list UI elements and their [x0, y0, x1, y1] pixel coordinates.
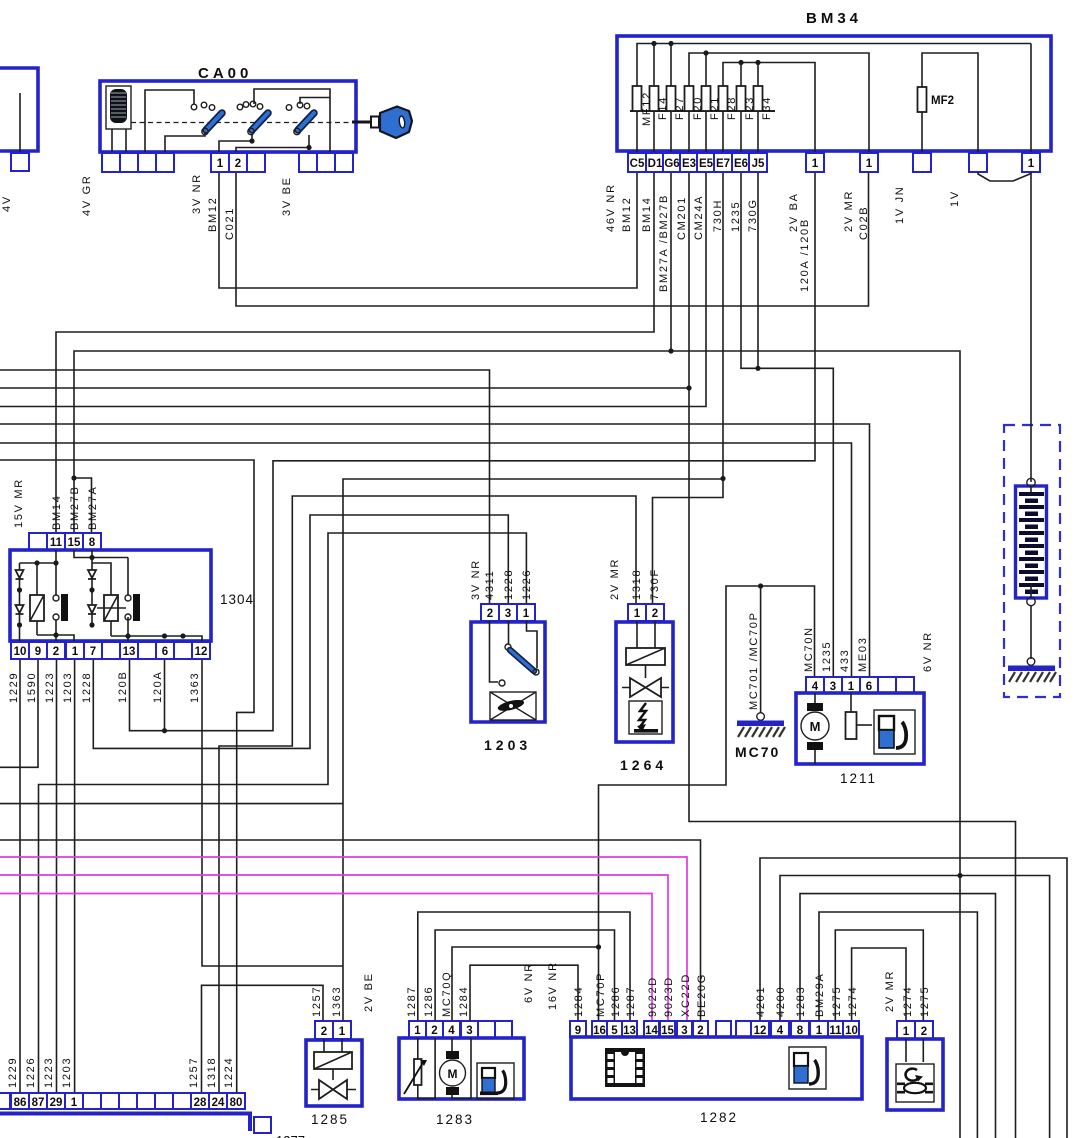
pin cells 1 2 4 3 + blanks: [409, 1021, 426, 1038]
component box: [887, 1039, 943, 1110]
svg-text:E7: E7: [716, 158, 730, 170]
svg-text:1283: 1283: [795, 986, 807, 1017]
wire MC70 ground drop: [760, 586, 762, 713]
svg-text:730G: 730G: [747, 198, 759, 232]
fuel pump icon: [789, 1047, 826, 1089]
pin cells 1 2: [897, 1021, 915, 1039]
partial component box: [0, 68, 38, 151]
switch contact wiring 3: [236, 135, 309, 153]
svg-text:G6: G6: [664, 158, 679, 170]
svg-text:16: 16: [593, 1025, 606, 1037]
svg-text:M: M: [810, 719, 821, 734]
svg-text:BM14: BM14: [641, 196, 653, 232]
wire XC22D magenta: [0, 857, 687, 1021]
wire 1286 1283 pin2 to 1282 pin5: [435, 930, 614, 1021]
svg-text:BM27B: BM27B: [69, 485, 81, 530]
component box 1211: [796, 693, 924, 764]
svg-text:9022D: 9022D: [647, 976, 659, 1017]
svg-text:11: 11: [50, 537, 63, 549]
svg-text:1363: 1363: [189, 672, 201, 703]
svg-text:1: 1: [816, 1025, 823, 1037]
svg-text:3V NR: 3V NR: [470, 559, 482, 600]
svg-text:3: 3: [681, 1025, 687, 1037]
coil: [314, 1052, 352, 1069]
svg-text:MC70Q: MC70Q: [441, 971, 453, 1017]
component box CA00: [100, 81, 356, 152]
relay2 contact: [127, 558, 129, 660]
svg-text:2: 2: [53, 646, 59, 658]
svg-text:1: 1: [903, 1026, 910, 1038]
relay2 diode chain: [91, 550, 93, 625]
svg-text:4V: 4V: [1, 195, 13, 212]
svg-text:1264: 1264: [620, 757, 667, 773]
svg-text:1203: 1203: [484, 737, 531, 753]
wire 1274 1282 pin10 to regulator pin1: [852, 948, 906, 1021]
switch lever 2: [237, 101, 268, 135]
wire 1228 1203 pin3 to 1304 pin7: [93, 515, 508, 748]
svg-text:4: 4: [777, 1025, 784, 1037]
svg-text:XC22D: XC22D: [680, 973, 692, 1017]
cylinder wires: [112, 129, 126, 153]
wire 4311 left edge to 1203 pin2: [0, 370, 490, 604]
wire 1235/730G BM34 E6,J5 to 1211 pin3: [741, 172, 833, 677]
svg-text:F14: F14: [657, 96, 669, 120]
svg-text:BM12: BM12: [207, 196, 219, 232]
wire 1284 1283 pin3 to 1282 pin9: [470, 965, 578, 1021]
pin cells 1 2: [628, 604, 646, 621]
wire ME03 left edge to 1211 pin6: [0, 424, 870, 677]
component box 1304: [10, 550, 211, 641]
svg-text:2V MR: 2V MR: [884, 970, 896, 1012]
junction dots CA00: [249, 138, 254, 143]
svg-text:4200: 4200: [775, 986, 787, 1017]
wire 433 left edge to 1211 pin1: [0, 443, 852, 677]
relay1 top rail: [20, 562, 57, 564]
fuse F28: [719, 86, 728, 111]
key symbol: [352, 107, 412, 139]
svg-text:MF2: MF2: [931, 95, 954, 107]
right pin cells: [751, 1021, 769, 1037]
svg-text:BM27A: BM27A: [87, 485, 99, 530]
svg-text:1257: 1257: [311, 986, 323, 1017]
svg-text:1275: 1275: [831, 986, 843, 1017]
relay2 bottom rail: [111, 636, 202, 659]
wire C02B CA00 pin2 to BM34 2V MR pin: [236, 172, 869, 306]
svg-text:D1: D1: [648, 158, 663, 170]
fan motor: [490, 692, 536, 720]
svg-text:1257: 1257: [188, 1057, 200, 1088]
wire MC70 ground net: [599, 586, 815, 1021]
switch inside: [508, 621, 510, 644]
svg-text:730H: 730H: [712, 199, 724, 232]
svg-text:433: 433: [839, 649, 851, 672]
svg-text:6: 6: [162, 646, 168, 658]
BM34 pin cell blank (1V JN): [913, 153, 931, 172]
svg-text:BE20G: BE20G: [696, 973, 708, 1017]
svg-text:1318: 1318: [206, 1057, 218, 1088]
svg-text:12: 12: [754, 1025, 767, 1037]
canister glyph: [629, 701, 662, 734]
svg-text:1363: 1363: [331, 986, 343, 1017]
wire 1224 left edge to strip pin80: [0, 460, 254, 1093]
svg-text:5: 5: [611, 1025, 618, 1037]
wire MC70Q branch 1283 pin4: [452, 947, 599, 1021]
switch lever 1: [191, 102, 222, 135]
wire 730G J5 drop: [757, 172, 759, 368]
battery body: [1016, 486, 1047, 598]
svg-text:1223: 1223: [43, 1057, 55, 1088]
svg-text:2: 2: [431, 1025, 437, 1037]
fuse F20: [685, 86, 694, 111]
svg-text:F23: F23: [744, 96, 756, 120]
top pin cells: [29, 533, 47, 550]
relay1 coil: [36, 563, 38, 635]
motor: [452, 1038, 471, 1099]
svg-text:1: 1: [217, 158, 224, 170]
BM34 pin cells C5 D1 G6 E3 E5 E7 E6 J5: [628, 153, 646, 172]
fuse wires to pins: [637, 111, 758, 154]
valve bowtie: [332, 1069, 334, 1080]
fuse carrier baseline: [630, 110, 775, 112]
component box 1282: [571, 1037, 862, 1099]
svg-text:16V NR: 16V NR: [547, 961, 559, 1010]
wire 730H branch staircase to left edge: [343, 479, 723, 1021]
svg-text:F21: F21: [709, 96, 721, 120]
wire CM201 BM34 E3 down to bottom connector: [689, 172, 1016, 1138]
strip cells: [0, 1093, 10, 1109]
svg-text:E3: E3: [682, 158, 696, 170]
svg-text:1590: 1590: [26, 672, 38, 703]
svg-text:E6: E6: [734, 158, 748, 170]
svg-text:F20: F20: [692, 96, 704, 120]
svg-text:13: 13: [623, 1025, 636, 1037]
svg-text:1285: 1285: [311, 1112, 349, 1127]
svg-text:3: 3: [466, 1025, 472, 1037]
battery feed through pin 1: [1030, 44, 1032, 173]
coil: [637, 621, 655, 648]
svg-text:1: 1: [1028, 158, 1035, 170]
switch contact wiring 2: [254, 89, 330, 153]
svg-text:1: 1: [523, 608, 530, 620]
switch contact wiring 1: [145, 90, 194, 153]
component box 1283: [399, 1038, 524, 1099]
fuse F34: [754, 86, 763, 111]
svg-text:3V NR: 3V NR: [191, 173, 203, 214]
svg-text:1: 1: [812, 158, 819, 170]
wire to ground: [1030, 605, 1032, 659]
svg-text:CM24A: CM24A: [693, 195, 705, 240]
svg-text:F28: F28: [726, 96, 738, 120]
relay2 feed rail: [74, 550, 128, 558]
pin cells 4 3 1 6 + blanks: [806, 677, 824, 693]
fuse MF12: [633, 86, 642, 111]
level sensor: [850, 693, 852, 712]
svg-text:2V MR: 2V MR: [609, 558, 621, 600]
wire 120A/120B BM34 2V BA to 1304 pins 13,6: [130, 172, 816, 731]
svg-text:1235: 1235: [821, 641, 833, 672]
fuse F21: [702, 86, 711, 111]
svg-text:1318: 1318: [631, 569, 643, 600]
svg-text:1284: 1284: [458, 986, 470, 1017]
svg-text:9: 9: [35, 646, 41, 658]
svg-text:2: 2: [235, 158, 241, 170]
svg-text:MC70P: MC70P: [595, 972, 607, 1017]
bottom pin cells: [11, 642, 29, 659]
svg-text:7: 7: [90, 646, 96, 658]
svg-text:15V MR: 15V MR: [13, 478, 25, 528]
svg-text:1203: 1203: [62, 672, 74, 703]
component box 1203: [471, 622, 545, 722]
strip outline 1277: [0, 1114, 250, 1132]
svg-text:80: 80: [230, 1097, 243, 1109]
fuel pump icon: [477, 1063, 514, 1099]
svg-text:1V JN: 1V JN: [894, 186, 906, 224]
svg-text:BM27A /BM27B: BM27A /BM27B: [658, 194, 670, 292]
svg-text:1274: 1274: [847, 986, 859, 1017]
wire inside: [19, 93, 21, 154]
wire 9022D magenta: [0, 894, 652, 1022]
fuse F23: [737, 86, 746, 111]
svg-text:1: 1: [634, 608, 641, 620]
svg-text:MF12: MF12: [641, 91, 653, 126]
wire BM12/C021 CA00 pin1 to BM34 C5: [219, 172, 637, 288]
wire CM24A BM34 E5 to left edge: [0, 172, 706, 407]
svg-text:1286: 1286: [423, 986, 435, 1017]
svg-text:1304: 1304: [220, 592, 254, 607]
svg-text:1274: 1274: [902, 986, 914, 1017]
svg-text:1284: 1284: [573, 986, 585, 1017]
svg-text:C021: C021: [224, 207, 236, 240]
svg-text:E5: E5: [699, 158, 714, 170]
wire 4201 1282 pin12 off page: [760, 858, 1067, 1138]
svg-text:2V MR: 2V MR: [843, 190, 855, 232]
internal rail 2: [689, 53, 869, 172]
svg-text:BM29A: BM29A: [814, 972, 826, 1017]
svg-text:1283: 1283: [436, 1112, 474, 1127]
wire 1318 1264 pin1 to strip pin24: [219, 496, 636, 1093]
svg-text:4311: 4311: [484, 570, 496, 600]
svg-text:F27: F27: [674, 96, 686, 120]
svg-text:28: 28: [194, 1097, 207, 1109]
component box 1285: [306, 1040, 362, 1106]
svg-text:1211: 1211: [840, 771, 877, 786]
valve bowtie: [645, 665, 647, 678]
svg-text:120A: 120A: [152, 671, 164, 704]
svg-text:6V NR: 6V NR: [922, 631, 934, 672]
svg-text:1: 1: [339, 1026, 346, 1038]
svg-text:BM14: BM14: [51, 494, 63, 530]
svg-text:1229: 1229: [7, 1057, 19, 1088]
svg-text:2: 2: [321, 1026, 327, 1038]
svg-text:8: 8: [89, 537, 96, 549]
svg-text:F34: F34: [761, 96, 773, 120]
svg-text:J5: J5: [752, 158, 765, 170]
svg-text:1277: 1277: [276, 1133, 305, 1138]
thermistor: [418, 1038, 435, 1099]
svg-text:12: 12: [195, 646, 208, 658]
svg-text:1235: 1235: [730, 201, 742, 232]
svg-text:MC70N: MC70N: [803, 626, 815, 672]
svg-text:15: 15: [661, 1025, 674, 1037]
svg-text:2V BE: 2V BE: [363, 972, 375, 1012]
fuse F27: [667, 86, 676, 111]
relay1 contact: [55, 550, 57, 659]
internal rail 3: [723, 63, 815, 173]
svg-text:10: 10: [14, 646, 27, 658]
BM34 pin cell 1 (2V BA): [806, 153, 824, 172]
svg-text:ME03: ME03: [857, 636, 869, 672]
svg-text:4: 4: [448, 1025, 455, 1037]
CA00 pin cells group C: [299, 153, 317, 172]
svg-text:3V BE: 3V BE: [281, 176, 293, 216]
wire 1257 1285 pin2 to strip pin28: [202, 985, 324, 1093]
wire 1363 1304 pin12 to 1285 pin1: [202, 659, 343, 966]
svg-text:2: 2: [652, 608, 658, 620]
wire 120A 1304 pin6: [164, 659, 166, 731]
svg-text:10: 10: [845, 1025, 858, 1037]
svg-text:1282: 1282: [700, 1110, 738, 1125]
svg-text:C5: C5: [630, 158, 645, 170]
svg-text:14: 14: [645, 1025, 658, 1037]
svg-text:2: 2: [487, 608, 493, 620]
svg-text:MC70: MC70: [735, 744, 780, 760]
wire 1283 1282 pin8 off page: [800, 894, 996, 1138]
svg-text:13: 13: [123, 646, 136, 658]
relay1 diode chain: [19, 563, 21, 659]
svg-text:1228: 1228: [503, 569, 515, 600]
dashed axis line: [131, 122, 357, 124]
trapezoid link: [978, 172, 1031, 181]
svg-text:MC701 /MC70P: MC701 /MC70P: [748, 611, 760, 710]
wire 1275 1282 pin11 to regulator pin2: [835, 930, 923, 1021]
svg-text:1: 1: [72, 646, 79, 658]
svg-text:9023D: 9023D: [663, 976, 675, 1017]
wire BM27B/BM27A bus 1304 to BM34 G6 and right: [74, 351, 960, 1138]
svg-text:120A /120B: 120A /120B: [799, 218, 811, 292]
motor: [814, 693, 816, 764]
svg-text:8: 8: [797, 1025, 804, 1037]
svg-text:4201: 4201: [755, 986, 767, 1017]
svg-text:1203: 1203: [61, 1057, 73, 1088]
svg-text:3: 3: [505, 608, 511, 620]
svg-text:46V NR: 46V NR: [605, 183, 617, 232]
svg-text:C02B: C02B: [858, 206, 870, 240]
svg-text:730F: 730F: [649, 568, 661, 600]
svg-text:1287: 1287: [406, 986, 418, 1017]
svg-text:2: 2: [697, 1025, 703, 1037]
pin cells 2 1: [315, 1021, 333, 1039]
svg-text:87: 87: [32, 1097, 45, 1109]
svg-text:1275: 1275: [919, 986, 931, 1017]
fuse F14: [650, 86, 659, 111]
regulator icon: [896, 1064, 934, 1102]
wire BM27A branch to pin 8: [74, 478, 92, 533]
svg-text:4V GR: 4V GR: [81, 174, 93, 216]
svg-text:1224: 1224: [223, 1057, 235, 1088]
svg-text:BM34: BM34: [806, 10, 862, 27]
fuse MF2: [922, 53, 978, 154]
switch lever 3: [286, 102, 314, 135]
svg-text:1V: 1V: [949, 190, 961, 207]
svg-text:1228: 1228: [81, 672, 93, 703]
svg-text:86: 86: [14, 1097, 27, 1109]
BM34 pin cell blank: [969, 153, 987, 172]
wire BE20G left edge to 1282 pin2: [0, 840, 701, 1021]
svg-text:1: 1: [866, 158, 873, 170]
fuel pump icon: [874, 710, 915, 754]
CA00 pin cells group A: [102, 153, 120, 172]
svg-text:1226: 1226: [521, 569, 533, 600]
wire 1287 1283 pin1 to 1282 pin13: [418, 912, 630, 1021]
wire 9023D magenta: [0, 875, 668, 1021]
svg-text:1223: 1223: [44, 672, 56, 703]
svg-text:11: 11: [829, 1025, 842, 1037]
svg-text:1: 1: [71, 1097, 78, 1109]
lock cylinder coil: [106, 86, 131, 129]
wire BM14 1304 pin11 to BM34 D1: [56, 172, 654, 533]
svg-text:1: 1: [414, 1025, 421, 1037]
CA00 pin cells 1,2: [211, 153, 229, 172]
BM34 pin cell 1 (battery): [1022, 153, 1040, 172]
pin cells 2 3 1: [481, 604, 499, 621]
svg-text:1286: 1286: [610, 986, 622, 1017]
wire 1226 1203 pin1 to strip pin87: [39, 533, 527, 1093]
wire G6 drop: [670, 172, 672, 351]
left pin cells: [570, 1021, 586, 1037]
svg-text:M: M: [448, 1067, 458, 1081]
component box 1264: [616, 622, 673, 742]
svg-text:1229: 1229: [8, 672, 20, 703]
svg-text:6V NR: 6V NR: [523, 962, 535, 1003]
wire 1229: [19, 659, 21, 1093]
relay2 coil: [92, 563, 111, 636]
wire 730H BM34 E7 to 1264 pin2: [653, 172, 724, 620]
svg-text:1287: 1287: [625, 986, 637, 1017]
wire 1223: [56, 659, 58, 1093]
svg-text:24: 24: [212, 1097, 225, 1109]
component box BM34: [617, 36, 1051, 151]
wire 4200 1282 pin4 off page: [780, 876, 1050, 1138]
svg-text:15: 15: [68, 537, 81, 549]
svg-text:120B: 120B: [117, 671, 129, 704]
pin cell: [11, 153, 29, 171]
wire BM29A 1282 pin1 off page: [819, 912, 977, 1138]
junction dots: [686, 385, 691, 390]
wire 1203: [74, 659, 76, 1093]
wire 1590 1304 pin9 to left edge: [0, 659, 38, 767]
relay1 bottom rail: [37, 635, 74, 659]
svg-text:29: 29: [50, 1097, 63, 1109]
wire CM201 branch to left edge: [0, 387, 689, 389]
internal rail 1: [637, 44, 1031, 87]
svg-text:1226: 1226: [25, 1057, 37, 1088]
svg-text:9: 9: [575, 1025, 581, 1037]
svg-text:BM12: BM12: [621, 196, 633, 232]
wire into battery: [1030, 172, 1032, 482]
IC chip icon: [605, 1048, 645, 1087]
svg-text:CM201: CM201: [676, 196, 688, 240]
svg-text:2: 2: [921, 1026, 927, 1038]
BM34 pin cell 1 (2V MR): [860, 153, 878, 172]
